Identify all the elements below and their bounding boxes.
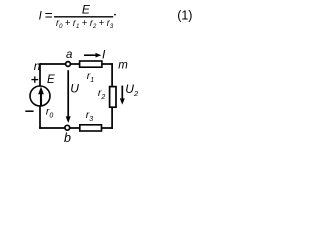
svg-text:m: m [118, 60, 128, 72]
svg-text:E: E [82, 2, 91, 16]
wire: r1 to corner m [102, 63, 113, 65]
wire: node b to left corner [39, 127, 64, 129]
EMF source circle [30, 86, 50, 106]
resistor R2 [110, 87, 116, 108]
svg-text:n: n [34, 59, 41, 73]
wire left upper: corner n down to source [39, 65, 41, 86]
wire: r3 to node b [70, 127, 80, 129]
wire bottom: corner to r3 [102, 127, 113, 129]
current arrow I [84, 53, 101, 58]
voltage arrow U2 [120, 86, 125, 105]
wire: node a to r1 [71, 63, 80, 65]
voltage arrow U (a to b) [66, 70, 71, 123]
svg-text:r0 + r1 + r2 + r3: r0 + r1 + r2 + r3 [56, 17, 113, 30]
node a [66, 62, 71, 67]
minus sign [25, 110, 33, 112]
EMF arrow inside source [38, 87, 44, 107]
wire top: corner n to node a [40, 63, 65, 65]
plus sign [31, 76, 38, 82]
wire left lower: source to bottom corner [39, 106, 41, 129]
svg-text:E: E [47, 74, 55, 86]
node b [65, 125, 70, 130]
equation I = E / (r0+r1+r2+r3) [39, 2, 116, 30]
svg-text:=: = [45, 8, 53, 23]
svg-text:b: b [64, 131, 71, 144]
resistor R1 [80, 61, 102, 67]
resistor R3 [80, 125, 102, 131]
svg-text:a: a [66, 49, 72, 61]
wire right lower: r2 to bottom corner [111, 107, 113, 129]
wire right upper: corner m down to r2 [111, 63, 113, 87]
svg-text:(1): (1) [177, 9, 192, 23]
svg-text:U: U [70, 82, 79, 96]
